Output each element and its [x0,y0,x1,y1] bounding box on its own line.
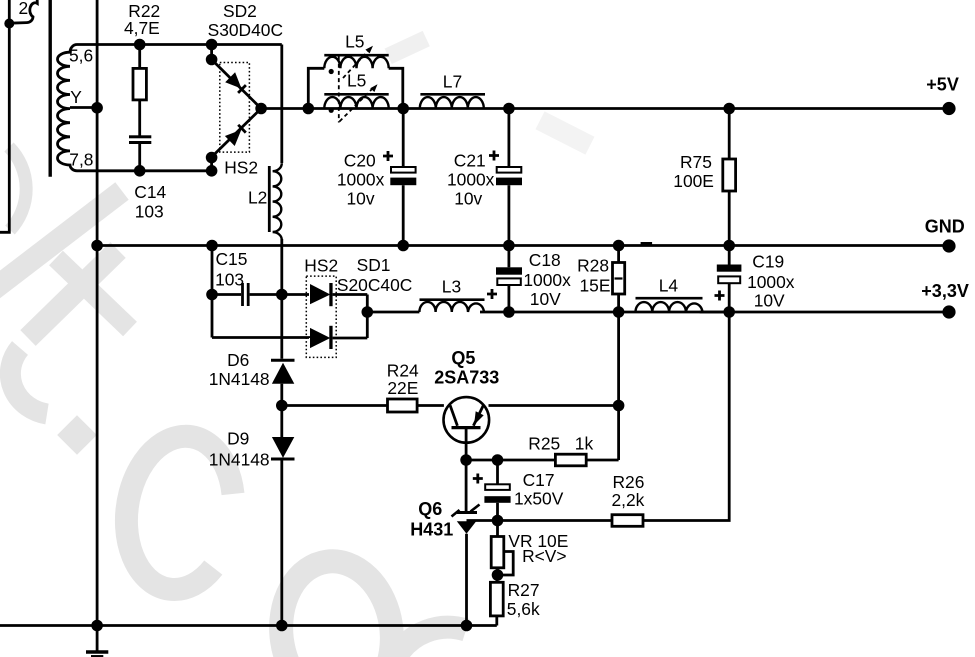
svg-text:C15: C15 [216,249,248,269]
capacitor C15 [212,293,241,296]
svg-text:H431: H431 [410,520,453,540]
svg-text:R28: R28 [577,255,609,275]
svg-text:1N4148: 1N4148 [209,449,270,469]
L5 coupling dashed line [338,57,340,123]
plus sign C21 [489,151,499,161]
svg-text:HS2: HS2 [224,157,258,177]
wire L3 to C19 [480,311,729,314]
svg-text:Q5: Q5 [451,348,475,368]
svg-text:C20: C20 [344,150,376,170]
node SD2 anode lower [206,152,218,164]
node base riser [613,400,625,412]
svg-text:10v: 10v [454,189,482,209]
svg-text:10V: 10V [530,289,561,309]
svg-text:R27: R27 [508,580,540,600]
svg-text:5,6: 5,6 [69,46,93,66]
svg-text:L7: L7 [443,71,462,91]
terminal GND [942,239,955,252]
node Y junction [91,102,103,114]
diode SD1 lower [310,328,330,348]
wire SD2 top stub [210,45,213,60]
node C17 top [492,454,504,466]
diode SD2 lower [212,109,262,158]
svg-text:Q6: Q6 [418,499,442,519]
node ref junction [492,515,504,527]
node GND start [91,240,103,252]
plus sign C20 [383,151,393,161]
heatsink HS2 box (SD2) [220,63,250,153]
node SD2 bottom [206,165,218,177]
inductor L2 [273,163,282,240]
ground symbol [96,626,99,651]
wire R22 to C14 [138,100,141,136]
diode D6 [280,295,283,359]
svg-text:2: 2 [19,0,29,18]
node R22 top [134,39,146,51]
svg-text:D9: D9 [227,429,249,449]
node R75 bottom [723,240,735,252]
wire bottom rail [0,624,497,627]
wire Y tap [70,106,97,109]
resistor R28 [617,246,620,263]
node primary tap 2 junction [4,19,14,29]
svg-text:103: 103 [135,202,164,222]
node Q6 bottom [461,620,473,632]
wire R22 top lead [138,45,141,69]
node R28 top [613,240,625,252]
winding primary 2 partial [9,0,37,23]
svg-text:S20C40C: S20C40C [337,275,412,295]
svg-text:1000x: 1000x [337,170,385,190]
node C15 top [206,240,218,252]
svg-text:D6: D6 [227,350,249,370]
node D9 bottom [276,620,288,632]
L5 adjust arrow bottom [340,88,374,122]
svg-text:1000x: 1000x [523,270,571,290]
plus sign C17 [473,474,483,484]
terminal +3.3V [942,305,955,318]
wire VR bypass [498,552,514,576]
node Q5 emitter bottom [460,454,472,466]
svg-text:15E: 15E [580,276,611,296]
inductor L5 bottom winding [324,97,388,108]
capacitor C20 [402,109,405,168]
variable resistor VR [496,521,499,537]
node VR bottom [492,569,504,581]
wire left edge vertical [0,0,9,232]
wire L4 to terminal [700,311,947,314]
svg-text:L5: L5 [347,71,366,91]
inductor L4 [636,302,703,312]
svg-text:C17: C17 [523,470,555,490]
resistor R27 [496,575,499,582]
svg-text:L3: L3 [442,277,461,297]
wire ref row [467,519,613,522]
inductor L3 [419,302,484,312]
svg-text:+3,3V: +3,3V [921,281,969,301]
wire SD1 cathode vertical [366,295,369,339]
node SD1 output [362,306,374,318]
resistor R22 [133,68,146,100]
transistor Q5 [444,397,490,443]
svg-text:+5V: +5V [926,75,959,95]
svg-text:1x50V: 1x50V [514,489,564,509]
wire C15 left vertical [211,246,214,338]
svg-text:5,6k: 5,6k [507,599,540,619]
node C19 bottom [723,306,735,318]
capacitor C18 [507,246,510,268]
svg-text:R25: R25 [528,433,560,453]
svg-text:GND: GND [925,217,965,237]
svg-text:C14: C14 [134,182,166,202]
C19 minus mark [641,242,653,246]
diode SD1 upper [310,284,330,304]
resistor R25 [555,454,586,466]
wire riser 3.3V to R25 [617,312,620,460]
capacitor C21 [507,109,510,168]
capacitor C19 [728,246,731,265]
wire SD2 bottom stub [210,158,213,171]
svg-text:100E: 100E [673,171,714,191]
L5 phase dots [329,69,334,74]
node C15 right [276,289,288,301]
resistor R24 [388,399,418,412]
node SD2 anode upper [206,54,218,66]
wire L2 riser from top rail [280,45,283,164]
node L5 left [303,103,315,115]
svg-text:2SA733: 2SA733 [434,368,499,388]
svg-text:10V: 10V [754,290,785,310]
terminal +5V [942,102,955,115]
svg-text:C19: C19 [752,252,784,272]
wire +5V rail [261,107,947,110]
wire C15 box bottom [212,336,309,339]
wire L5 top branch [308,68,324,108]
svg-text:1k: 1k [575,433,594,453]
svg-text:SD1: SD1 [357,255,391,275]
node C14 bottom [134,165,146,177]
node C15 left [206,289,218,301]
node C21 top [503,103,515,115]
svg-text:Y: Y [70,87,82,107]
svg-text:4,7E: 4,7E [124,18,160,38]
node SD2 output [255,103,267,115]
node R28 bottom [613,306,625,318]
plus sign C19 [715,291,725,301]
node C21 bottom / C18 top [503,240,515,252]
wire GND rail [97,244,947,247]
inductor L7 [420,97,484,108]
svg-text:1N4148: 1N4148 [209,369,270,389]
shunt regulator Q6 [465,460,468,511]
node D6 D9 junction [276,400,288,412]
wire base rail [282,404,388,407]
node L5 right [397,103,409,115]
transformer secondary winding 5,6 Y 7,8 [57,45,77,171]
svg-text:C21: C21 [454,150,486,170]
inductor L5 top winding [324,57,388,69]
wire secondary bottom rail [77,169,212,172]
plus sign C18 [487,289,497,299]
svg-text:1000x: 1000x [747,272,795,292]
svg-text:2,2k: 2,2k [612,490,645,510]
svg-text:103: 103 [215,269,244,289]
svg-text:L5: L5 [345,31,364,51]
svg-text:R75: R75 [680,152,712,172]
svg-text:7,8: 7,8 [69,150,93,170]
svg-text:S30D40C: S30D40C [208,20,283,40]
svg-text:R<V>: R<V> [522,546,566,566]
svg-text:1000x: 1000x [447,170,495,190]
resistor R75 [728,109,731,160]
wire R25 row [466,459,555,462]
wire secondary top rail [77,43,282,46]
wire +3.3V rail left [367,311,419,314]
svg-text:22E: 22E [387,378,418,398]
wire Y tap vertical to bottom [96,0,99,626]
transformer core [49,0,52,177]
svg-text:C18: C18 [529,250,561,270]
svg-text:SD2: SD2 [223,1,257,21]
svg-text:R26: R26 [613,472,645,492]
diode D9 [272,437,294,458]
wire Q5 right to riser [489,404,619,407]
wire L2 to C15 node [280,239,283,295]
svg-text:10v: 10v [347,189,375,209]
node SD2 top [206,39,218,51]
diode SD2 upper [212,60,262,109]
svg-text:L4: L4 [659,276,679,296]
node C18 bottom [503,306,515,318]
node C20 bottom [397,240,409,252]
node R75 top [723,103,735,115]
resistor R26 [612,515,643,527]
capacitor C14 [129,135,151,144]
node gnd rail left [91,620,103,632]
wire C14 bottom lead [138,144,141,171]
watermark [0,31,594,657]
heatsink HS2 box (SD1) [306,276,336,357]
svg-text:HS2: HS2 [304,255,338,275]
svg-text:L2: L2 [248,188,267,208]
L5 adjust arrow top [343,50,370,79]
capacitor C17 [496,460,499,484]
